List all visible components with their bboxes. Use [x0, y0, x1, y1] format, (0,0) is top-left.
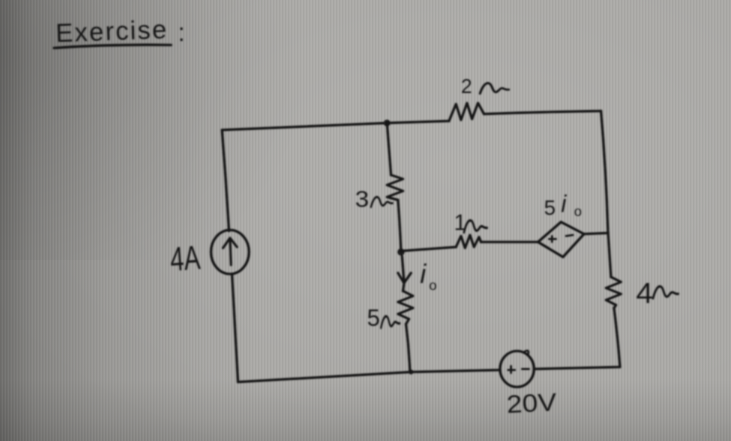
- wire right vertical lower: [614, 308, 620, 367]
- title underline: [54, 45, 171, 48]
- wire 5ohm to bottom: [406, 324, 410, 372]
- label 4 ohm: [636, 278, 653, 310]
- svg-text:5: 5: [544, 197, 556, 220]
- plus sign inside 20V: [508, 366, 515, 373]
- svg-text:2: 2: [461, 76, 472, 98]
- label 20V: [506, 388, 558, 419]
- node A junction dot top: [384, 120, 391, 127]
- wire node to 5ohm: [403, 284, 404, 291]
- resistor R 5ohm zigzag: [398, 291, 413, 324]
- wire top after 2-ohm: [484, 111, 601, 114]
- svg-text::: :: [178, 19, 185, 47]
- arrow up inside 4A: [223, 238, 237, 265]
- wire top-left horizontal: [222, 123, 387, 130]
- omega squiggle for 2ohm: [480, 83, 509, 93]
- svg-text:i: i: [420, 259, 427, 289]
- wire 1ohm to diamond: [481, 241, 538, 244]
- wire bottom right: [534, 367, 620, 369]
- svg-text:5: 5: [367, 305, 380, 332]
- resistor R 2ohm zigzag: [449, 103, 484, 121]
- wire node to 1ohm: [401, 247, 456, 251]
- node bottom junction: [409, 370, 414, 375]
- wire top before 2-ohm: [387, 121, 449, 123]
- label 3 ohm: [355, 186, 369, 212]
- wire bottom left: [238, 372, 411, 382]
- svg-text:o: o: [574, 203, 582, 219]
- label 2 ohm: [461, 76, 472, 98]
- minus sign inside 20V: [522, 368, 529, 370]
- wire diamond to right wire: [584, 233, 608, 234]
- plus inside diamond: [549, 236, 556, 242]
- io arrow down: [398, 256, 411, 283]
- node B junction dot middle: [397, 248, 404, 255]
- resistor R 3ohm zigzag: [387, 175, 403, 200]
- wire middle vertical upper: [387, 123, 391, 175]
- svg-text:Exercise: Exercise: [55, 14, 168, 48]
- wire right vertical upper: [601, 111, 608, 232]
- svg-text:4: 4: [636, 278, 653, 310]
- wire middle vertical to node: [398, 200, 401, 251]
- resistor R 4ohm zigzag: [606, 277, 621, 308]
- svg-text:20V: 20V: [506, 388, 558, 419]
- dependent source diamond 5io: [538, 222, 584, 257]
- wire left vertical upper: [222, 130, 229, 231]
- title Exercise: [55, 14, 185, 48]
- label 5io: [544, 191, 582, 220]
- current source I1 4A circle: [211, 230, 249, 274]
- svg-text:o: o: [429, 277, 437, 293]
- svg-text:4A: 4A: [169, 239, 202, 279]
- wire bottom middle: [411, 370, 500, 372]
- label 4A: [169, 239, 202, 279]
- label 5 ohm: [367, 305, 380, 332]
- wire left vertical lower: [232, 274, 238, 382]
- label 1 ohm: [454, 210, 466, 235]
- svg-text:i: i: [561, 191, 567, 218]
- resistor R 1ohm zigzag: [456, 235, 481, 248]
- label io: [420, 259, 437, 293]
- voltage source V1 20V circle: [500, 351, 534, 387]
- minus inside diamond: [566, 235, 573, 236]
- svg-text:3: 3: [355, 186, 369, 212]
- wire right vertical to 4ohm: [608, 232, 611, 277]
